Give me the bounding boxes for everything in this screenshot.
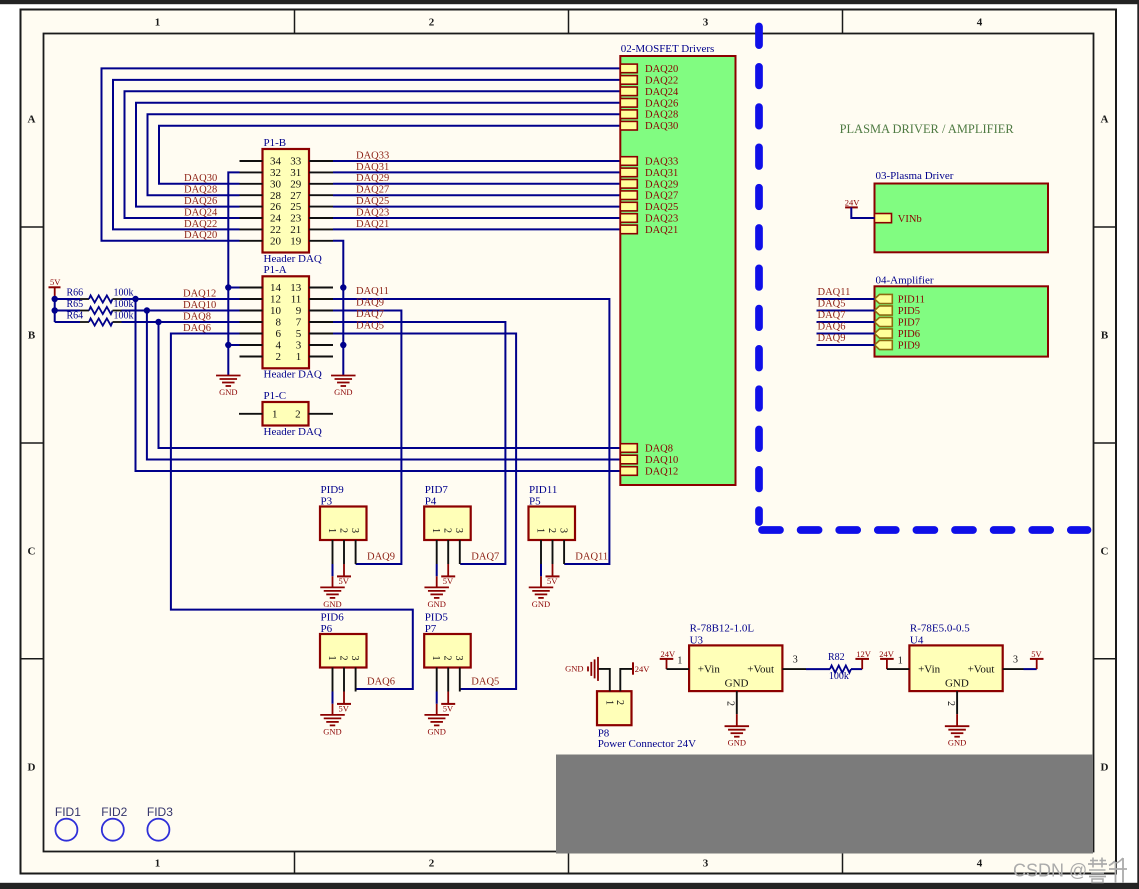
svg-text:3: 3 xyxy=(453,528,464,533)
svg-text:DAQ7: DAQ7 xyxy=(356,309,384,320)
svg-text:DAQ33: DAQ33 xyxy=(645,157,678,168)
svg-text:DAQ11: DAQ11 xyxy=(356,286,389,297)
wire U4 pin1 xyxy=(887,668,910,670)
svg-text:2: 2 xyxy=(337,656,348,661)
power port 5V P6 xyxy=(343,692,345,704)
svg-text:1: 1 xyxy=(898,655,903,666)
svg-text:DAQ9: DAQ9 xyxy=(818,333,846,344)
wire DAQ24 bus xyxy=(125,91,621,218)
svg-text:+Vout: +Vout xyxy=(747,664,774,676)
svg-text:04-Amplifier: 04-Amplifier xyxy=(876,275,934,287)
svg-text:12V: 12V xyxy=(856,649,872,659)
sheet entry DAQ33 xyxy=(620,157,637,166)
svg-text:1: 1 xyxy=(155,858,161,870)
svg-text:DAQ11: DAQ11 xyxy=(575,552,608,563)
svg-text:PLASMA DRIVER / AMPLIFIER: PLASMA DRIVER / AMPLIFIER xyxy=(840,122,1015,136)
svg-text:PID6: PID6 xyxy=(898,329,920,340)
svg-text:7: 7 xyxy=(296,317,302,329)
svg-text:R-78B12-1.0L: R-78B12-1.0L xyxy=(690,623,755,635)
ground GND P3 xyxy=(320,586,345,588)
svg-text:DAQ12: DAQ12 xyxy=(645,467,678,478)
svg-text:GND: GND xyxy=(427,599,445,609)
pin stubs P5 xyxy=(540,540,542,564)
svg-text:24V: 24V xyxy=(661,649,677,659)
svg-text:3: 3 xyxy=(558,528,569,533)
connector P8 Power Connector 24V xyxy=(597,691,632,725)
svg-text:DAQ22: DAQ22 xyxy=(184,219,217,230)
ground GND P6 xyxy=(320,714,345,716)
bottom black bar xyxy=(0,883,1139,889)
resistor R66 100k xyxy=(80,298,89,300)
svg-text:DAQ7: DAQ7 xyxy=(818,310,846,321)
wire U3 pin3 xyxy=(782,668,806,670)
svg-text:28: 28 xyxy=(270,190,282,202)
svg-text:100k: 100k xyxy=(114,288,134,299)
svg-text:5V: 5V xyxy=(443,703,454,713)
svg-text:2: 2 xyxy=(546,528,557,533)
svg-text:1: 1 xyxy=(155,17,161,29)
svg-text:Header DAQ: Header DAQ xyxy=(264,426,322,438)
junction 5V r2 xyxy=(52,307,58,313)
svg-text:5: 5 xyxy=(296,328,302,340)
wire pin1 P3 to gnd xyxy=(332,564,334,576)
svg-text:P1-B: P1-B xyxy=(264,137,287,149)
svg-text:DAQ25: DAQ25 xyxy=(645,202,678,213)
power port 5V P4 xyxy=(447,564,449,576)
svg-text:5V: 5V xyxy=(547,576,558,586)
svg-text:PID7: PID7 xyxy=(898,318,920,329)
sheet entry DAQ29 xyxy=(620,180,637,189)
svg-text:DAQ27: DAQ27 xyxy=(645,191,678,202)
svg-text:23: 23 xyxy=(290,213,302,225)
svg-text:DAQ10: DAQ10 xyxy=(183,300,216,311)
svg-text:3: 3 xyxy=(296,340,302,352)
svg-text:5V: 5V xyxy=(339,576,350,586)
svg-text:30: 30 xyxy=(270,178,282,190)
wire DAQ10 to drivers xyxy=(147,311,620,460)
wire gnd-left (pin32,14,4) xyxy=(228,172,239,375)
svg-text:DAQ21: DAQ21 xyxy=(645,225,678,236)
pin stubs P8 xyxy=(598,669,610,691)
sheet entry DAQ10 xyxy=(620,455,637,464)
svg-text:DAQ6: DAQ6 xyxy=(818,321,846,332)
svg-text:A: A xyxy=(28,114,36,126)
svg-text:P1-C: P1-C xyxy=(264,390,287,402)
sheet entry DAQ26 xyxy=(620,99,637,108)
svg-text:1: 1 xyxy=(296,351,302,363)
sheet entry PID11 xyxy=(875,294,893,303)
wire DAQ21 xyxy=(333,228,620,230)
svg-text:+Vin: +Vin xyxy=(698,664,721,676)
svg-text:5V: 5V xyxy=(339,703,350,713)
wire DAQ30 bus xyxy=(159,126,620,184)
sheet entry PID9 xyxy=(875,340,893,349)
svg-text:4: 4 xyxy=(276,340,282,352)
svg-text:D: D xyxy=(1101,762,1109,774)
svg-text:DAQ10: DAQ10 xyxy=(645,455,678,466)
svg-text:2: 2 xyxy=(442,656,453,661)
wire row R66 xyxy=(55,298,80,300)
svg-text:3: 3 xyxy=(349,656,360,661)
svg-text:GND: GND xyxy=(323,599,341,609)
svg-text:R-78E5.0-0.5: R-78E5.0-0.5 xyxy=(910,623,970,635)
svg-text:DAQ24: DAQ24 xyxy=(645,87,679,98)
svg-text:C: C xyxy=(28,546,36,558)
svg-text:24: 24 xyxy=(270,213,282,225)
svg-text:+Vout: +Vout xyxy=(968,664,995,676)
svg-text:DAQ29: DAQ29 xyxy=(356,173,389,184)
svg-text:24V: 24V xyxy=(879,649,895,659)
wire DAQ9 xyxy=(333,311,401,565)
svg-text:Header DAQ: Header DAQ xyxy=(264,369,322,381)
svg-text:24V: 24V xyxy=(845,197,861,207)
svg-text:+Vin: +Vin xyxy=(918,664,941,676)
sheet entry DAQ20 xyxy=(620,64,637,73)
wire DAQ11 xyxy=(333,299,609,564)
svg-text:33: 33 xyxy=(290,156,302,168)
svg-text:D: D xyxy=(28,762,36,774)
pin stubs P4 xyxy=(436,540,438,564)
svg-text:FID2: FID2 xyxy=(101,805,127,819)
svg-text:DAQ27: DAQ27 xyxy=(356,185,389,196)
svg-text:DAQ9: DAQ9 xyxy=(356,298,384,309)
svg-text:100k: 100k xyxy=(829,671,849,682)
wire DAQ22 bus xyxy=(113,80,620,230)
wire pin1 P7 to gnd xyxy=(436,692,438,704)
svg-text:1: 1 xyxy=(430,528,441,533)
pin stubs P6 xyxy=(332,668,334,692)
svg-text:DAQ29: DAQ29 xyxy=(645,179,678,190)
svg-text:3: 3 xyxy=(703,858,709,870)
pin 2 U4 xyxy=(956,691,958,714)
svg-text:1: 1 xyxy=(603,700,614,705)
svg-text:19: 19 xyxy=(290,235,302,247)
svg-text:R66: R66 xyxy=(67,288,84,299)
pin stubs P7 xyxy=(436,668,438,692)
wire DAQ33 xyxy=(333,160,620,162)
svg-text:31: 31 xyxy=(290,167,301,179)
sheet entry DAQ8 xyxy=(620,444,637,453)
svg-text:DAQ31: DAQ31 xyxy=(356,162,389,173)
power port 5V P5 xyxy=(552,564,554,576)
svg-text:5V: 5V xyxy=(443,576,454,586)
wire DAQ11 to PID11 xyxy=(817,298,875,300)
svg-text:DAQ28: DAQ28 xyxy=(184,185,217,196)
svg-text:1: 1 xyxy=(326,528,337,533)
wire pin1 P5 to gnd xyxy=(540,564,542,576)
svg-text:GND: GND xyxy=(948,738,966,748)
wire row R65 xyxy=(55,310,80,312)
svg-text:100k: 100k xyxy=(114,299,134,310)
right edge black line xyxy=(1137,0,1139,889)
svg-text:GND: GND xyxy=(427,726,445,736)
svg-text:GND: GND xyxy=(334,387,352,397)
svg-text:3: 3 xyxy=(349,528,360,533)
svg-text:DAQ20: DAQ20 xyxy=(645,64,678,75)
sheet entry PID6 xyxy=(875,329,893,338)
svg-text:DAQ31: DAQ31 xyxy=(645,168,678,179)
wire DAQ27 xyxy=(333,194,620,196)
sheet entry DAQ22 xyxy=(620,76,637,85)
ground GND P5 xyxy=(529,586,554,588)
svg-text:FID1: FID1 xyxy=(55,805,81,819)
wire DAQ5 to PID5 xyxy=(817,310,875,312)
pin stubs P1-C xyxy=(239,413,263,415)
svg-text:4: 4 xyxy=(977,858,983,870)
sheet entry DAQ12 xyxy=(620,467,637,476)
svg-text:CSDN @: CSDN @ xyxy=(1013,861,1087,881)
svg-text:9: 9 xyxy=(296,305,302,317)
svg-text:1: 1 xyxy=(677,655,682,666)
ground GND under P1-A right xyxy=(331,375,356,377)
svg-text:2: 2 xyxy=(429,17,435,29)
svg-text:03-Plasma Driver: 03-Plasma Driver xyxy=(876,170,954,182)
svg-text:R65: R65 xyxy=(67,299,84,310)
junction P1-A pin14 xyxy=(225,284,231,290)
power port 24V at P8 xyxy=(632,662,634,674)
ground GND P4 xyxy=(424,586,449,588)
svg-text:26: 26 xyxy=(270,201,282,213)
svg-text:DAQ26: DAQ26 xyxy=(184,196,217,207)
wire DAQ25 xyxy=(333,206,620,208)
wire DAQ23 xyxy=(333,217,620,219)
sheet entry DAQ27 xyxy=(620,191,637,200)
ground GND U4 xyxy=(945,725,970,727)
sheet entry DAQ23 xyxy=(620,214,637,223)
resistor R64 100k xyxy=(80,321,89,323)
svg-text:B: B xyxy=(1101,330,1109,342)
svg-text:DAQ8: DAQ8 xyxy=(645,444,673,455)
svg-text:GND: GND xyxy=(565,664,583,674)
wire DAQ12 to drivers xyxy=(136,299,621,471)
svg-text:1: 1 xyxy=(326,656,337,661)
svg-text:5V: 5V xyxy=(1031,649,1042,659)
svg-text:2: 2 xyxy=(276,351,282,363)
svg-text:34: 34 xyxy=(270,156,282,168)
junction 5V r1 xyxy=(52,296,58,302)
svg-text:2: 2 xyxy=(429,858,435,870)
svg-text:DAQ26: DAQ26 xyxy=(645,98,678,109)
svg-text:4: 4 xyxy=(977,17,983,29)
svg-text:PID5: PID5 xyxy=(898,306,920,317)
wire DAQ7 xyxy=(333,322,505,564)
svg-text:GND: GND xyxy=(945,678,969,690)
wire pin1 P4 to gnd xyxy=(436,564,438,576)
svg-text:Power Connector 24V: Power Connector 24V xyxy=(598,738,696,750)
wire DAQ8 to drivers xyxy=(159,322,621,448)
svg-text:DAQ12: DAQ12 xyxy=(183,288,216,299)
svg-text:1: 1 xyxy=(272,409,278,421)
svg-text:8: 8 xyxy=(276,317,282,329)
svg-text:2: 2 xyxy=(295,409,301,421)
sheet entry DAQ21 xyxy=(620,225,637,234)
svg-text:GND: GND xyxy=(219,387,237,397)
top black bar xyxy=(0,0,1139,4)
svg-text:PID11: PID11 xyxy=(898,295,925,306)
svg-text:2: 2 xyxy=(614,700,625,705)
svg-text:1: 1 xyxy=(534,528,545,533)
svg-text:10: 10 xyxy=(270,305,282,317)
svg-text:DAQ30: DAQ30 xyxy=(645,121,678,132)
wire U3 pin1 xyxy=(667,668,690,670)
ground GND under P1-A left xyxy=(216,375,241,377)
svg-text:5V: 5V xyxy=(50,277,61,287)
watermark glyph sheng xyxy=(1109,858,1127,883)
ground GND U3 xyxy=(725,725,750,727)
svg-text:DAQ5: DAQ5 xyxy=(818,298,846,309)
svg-text:DAQ9: DAQ9 xyxy=(367,552,395,563)
wire gnd-right (pin19,13,3) xyxy=(333,241,343,376)
svg-text:32: 32 xyxy=(270,167,281,179)
watermark glyph jing xyxy=(1088,858,1107,883)
svg-text:11: 11 xyxy=(291,294,302,306)
svg-text:GND: GND xyxy=(323,726,341,736)
wire DAQ28 bus xyxy=(148,114,621,195)
wire DAQ6 to PID6 xyxy=(817,333,875,335)
svg-text:DAQ5: DAQ5 xyxy=(356,321,384,332)
svg-text:1: 1 xyxy=(430,656,441,661)
junction P1-A pin3 xyxy=(340,342,346,348)
wire row R64 xyxy=(55,321,80,323)
svg-text:13: 13 xyxy=(290,282,302,294)
svg-text:25: 25 xyxy=(290,201,302,213)
svg-text:DAQ6: DAQ6 xyxy=(367,677,395,688)
svg-text:DAQ30: DAQ30 xyxy=(184,173,217,184)
wire U4 pin3 xyxy=(1003,668,1024,670)
svg-text:DAQ25: DAQ25 xyxy=(356,196,389,207)
svg-text:3: 3 xyxy=(453,656,464,661)
junction P1-A pin4 xyxy=(225,342,231,348)
junction DAQ8 xyxy=(155,319,161,325)
svg-text:14: 14 xyxy=(270,282,282,294)
wire DAQ6 net xyxy=(171,334,413,690)
sheet entry VINb xyxy=(875,214,892,223)
wire pin4 join xyxy=(228,344,239,346)
junction DAQ10 xyxy=(144,307,150,313)
wire 5V bus left xyxy=(54,299,56,322)
svg-text:DAQ24: DAQ24 xyxy=(184,207,218,218)
svg-text:6: 6 xyxy=(276,328,282,340)
svg-text:DAQ5: DAQ5 xyxy=(471,677,499,688)
svg-text:2: 2 xyxy=(442,528,453,533)
svg-text:P1-A: P1-A xyxy=(264,264,287,276)
resistor R82 100k xyxy=(806,668,830,670)
svg-text:Header DAQ: Header DAQ xyxy=(264,253,322,265)
svg-text:PID9: PID9 xyxy=(898,341,920,352)
svg-text:DAQ33: DAQ33 xyxy=(356,150,389,161)
svg-text:DAQ11: DAQ11 xyxy=(818,287,851,298)
svg-text:B: B xyxy=(28,330,36,342)
svg-text:24V: 24V xyxy=(635,664,651,674)
svg-text:02-MOSFET Drivers: 02-MOSFET Drivers xyxy=(621,43,715,55)
svg-text:2: 2 xyxy=(945,701,956,706)
svg-text:21: 21 xyxy=(290,224,301,236)
svg-text:DAQ28: DAQ28 xyxy=(645,110,678,121)
svg-text:DAQ21: DAQ21 xyxy=(356,219,389,230)
sheet entry DAQ31 xyxy=(620,168,637,177)
svg-text:A: A xyxy=(1101,114,1109,126)
svg-text:DAQ22: DAQ22 xyxy=(645,75,678,86)
partition dashed line horizontal xyxy=(762,526,1088,534)
svg-text:R64: R64 xyxy=(67,311,84,322)
svg-text:DAQ20: DAQ20 xyxy=(184,230,217,241)
gray cover rectangle xyxy=(556,755,1093,854)
svg-text:3: 3 xyxy=(703,17,709,29)
svg-text:27: 27 xyxy=(290,190,302,202)
wire pin1 P6 to gnd xyxy=(332,692,334,704)
svg-text:GND: GND xyxy=(532,599,550,609)
wire DAQ9 to PID9 xyxy=(817,344,875,346)
svg-text:22: 22 xyxy=(270,224,281,236)
svg-text:C: C xyxy=(1101,546,1109,558)
pin stubs P3 xyxy=(332,540,334,564)
wire DAQ5 xyxy=(333,334,516,690)
svg-text:DAQ6: DAQ6 xyxy=(183,323,211,334)
sheet entry PID5 xyxy=(875,306,893,315)
svg-text:20: 20 xyxy=(270,235,282,247)
svg-text:100k: 100k xyxy=(114,311,134,322)
wire DAQ31 xyxy=(333,171,620,173)
power port 5V P7 xyxy=(447,692,449,704)
ground GND P7 xyxy=(424,714,449,716)
svg-text:GND: GND xyxy=(725,678,749,690)
svg-text:2: 2 xyxy=(337,528,348,533)
power port 5V P3 xyxy=(343,564,345,576)
svg-text:DAQ23: DAQ23 xyxy=(356,207,389,218)
svg-text:29: 29 xyxy=(290,178,302,190)
pin 2 U3 xyxy=(736,691,738,714)
wire pin14 join xyxy=(228,287,239,289)
svg-text:2: 2 xyxy=(725,701,736,706)
junction P1-A pin13 xyxy=(340,284,346,290)
svg-text:DAQ7: DAQ7 xyxy=(471,552,499,563)
svg-text:DAQ23: DAQ23 xyxy=(645,214,678,225)
svg-text:R82: R82 xyxy=(828,652,845,663)
sheet entry DAQ25 xyxy=(620,202,637,211)
resistor R65 100k xyxy=(80,310,89,312)
wire DAQ20 bus xyxy=(102,68,621,240)
sheet entry DAQ24 xyxy=(620,87,637,96)
svg-text:3: 3 xyxy=(1013,654,1018,665)
junction DAQ12 xyxy=(132,296,138,302)
svg-text:DAQ8: DAQ8 xyxy=(183,311,211,322)
partition dashed line vertical xyxy=(755,27,763,523)
svg-text:3: 3 xyxy=(793,654,798,665)
wire VINb xyxy=(851,207,874,218)
sheet entry DAQ30 xyxy=(620,121,637,130)
svg-text:12: 12 xyxy=(270,294,281,306)
sheet entry DAQ28 xyxy=(620,110,637,119)
sheet entry PID7 xyxy=(875,317,893,326)
wire DAQ29 xyxy=(333,183,620,185)
wire DAQ26 bus xyxy=(136,103,620,207)
svg-text:VINb: VINb xyxy=(898,214,922,225)
svg-text:FID3: FID3 xyxy=(147,805,173,819)
wire DAQ7 to PID7 xyxy=(817,321,875,323)
svg-text:GND: GND xyxy=(728,738,746,748)
